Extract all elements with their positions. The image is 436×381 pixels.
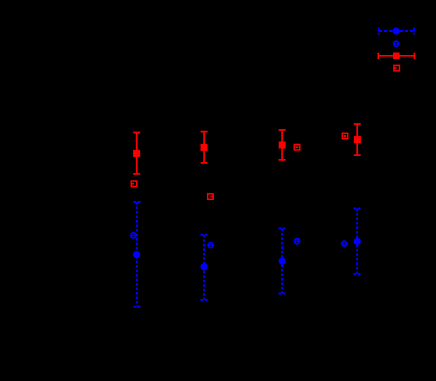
blue filled circle point 4	[354, 238, 361, 245]
red open square point 1 with left stub	[131, 181, 137, 187]
red open square point 2 with right stub	[208, 194, 214, 200]
legend entry 3: red solid line with caps and filled square	[378, 53, 414, 60]
blue filled circle point 2	[200, 263, 207, 270]
red error bar point 4 (x=357.2)	[354, 124, 361, 155]
legend entry 4: red open square with left stub	[393, 65, 399, 71]
blue open circle point 2 with centre dash	[208, 243, 213, 248]
blue dashed error bar point 2 (x=204)	[200, 235, 207, 300]
red open square point 4 with centre dot	[342, 133, 348, 139]
blue open circle point 1	[131, 233, 136, 238]
legend entry 2: blue open circle with centre dash	[394, 41, 399, 46]
blue dashed error bar point 3 (x=282.05)	[278, 228, 285, 293]
blue dashed error bar point 1 (x=136.9)	[133, 202, 140, 307]
red error bar point 2 (x=204.1)	[201, 132, 208, 163]
blue filled circle point 3	[279, 258, 286, 265]
blue filled circle point 1	[133, 251, 140, 258]
red open square point 3 with centre dash	[294, 144, 300, 150]
red error bar point 1 (x=136.7)	[133, 133, 140, 174]
blue dashed error bar point 4 (x=357.1)	[354, 208, 361, 274]
blue open circle point 3 with centre dash	[295, 239, 300, 244]
red error bar point 3 (x=282.1)	[279, 130, 286, 160]
legend entry 1: blue dashed line with caps and filled circle	[379, 27, 414, 34]
blue open circle point 4 with centre dash	[342, 241, 347, 246]
